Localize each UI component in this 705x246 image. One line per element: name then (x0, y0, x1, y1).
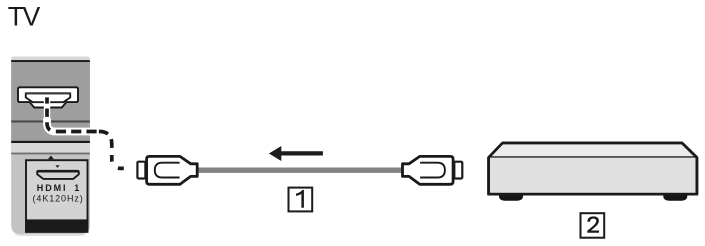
right HDMI plug (403, 156, 463, 184)
svg-text:1: 1 (74, 183, 79, 193)
up triangle pointer above plate (48, 156, 54, 160)
panel light strip (11, 143, 90, 153)
signal direction arrow (269, 146, 323, 161)
plug inner C (155, 163, 180, 178)
panel top light strip (11, 57, 90, 61)
HDMI port outer shell (18, 87, 78, 107)
digit 2 (587, 216, 599, 232)
HDMI cable (198, 168, 402, 173)
device outline redraw (489, 143, 697, 194)
dashed cable line (47, 94, 136, 168)
plug inner C (420, 163, 445, 178)
label plate (26, 160, 88, 232)
callout box 1 (289, 188, 313, 212)
panel black line under top strip (11, 60, 90, 62)
small down arrow in plate (56, 165, 60, 168)
dashed line white casing (47, 118, 136, 168)
device feet (499, 194, 523, 201)
panel divider dark line (11, 120, 90, 122)
plug body (147, 156, 198, 184)
plug tip (137, 162, 145, 179)
device top/front boundary (489, 156, 697, 158)
device body (489, 143, 697, 194)
panel black line (11, 141, 90, 143)
plate black bottom band (25, 219, 88, 232)
plate HDMI icon top edge (38, 170, 79, 173)
svg-text:(4K120Hz): (4K120Hz) (33, 193, 84, 203)
svg-text:HDMI: HDMI (37, 183, 68, 193)
HDMI port inner outline (26, 93, 70, 102)
svg-text:TV: TV (8, 2, 41, 32)
device top face (489, 143, 697, 157)
left HDMI plug (137, 156, 197, 184)
panel port-section gray (11, 62, 90, 120)
callout box 2 (581, 213, 605, 238)
plug tip (454, 162, 462, 179)
plug body (403, 156, 454, 184)
panel gray band (11, 123, 90, 141)
TV rear panel base (11, 57, 90, 235)
HDMI port contact bar (25, 92, 71, 94)
panel mid gray line (11, 153, 90, 155)
panel bottom lip (14, 234, 87, 236)
digit 1 (296, 190, 304, 208)
plate HDMI icon (37, 171, 79, 179)
dashed line white casing (port segment) (44, 95, 50, 120)
